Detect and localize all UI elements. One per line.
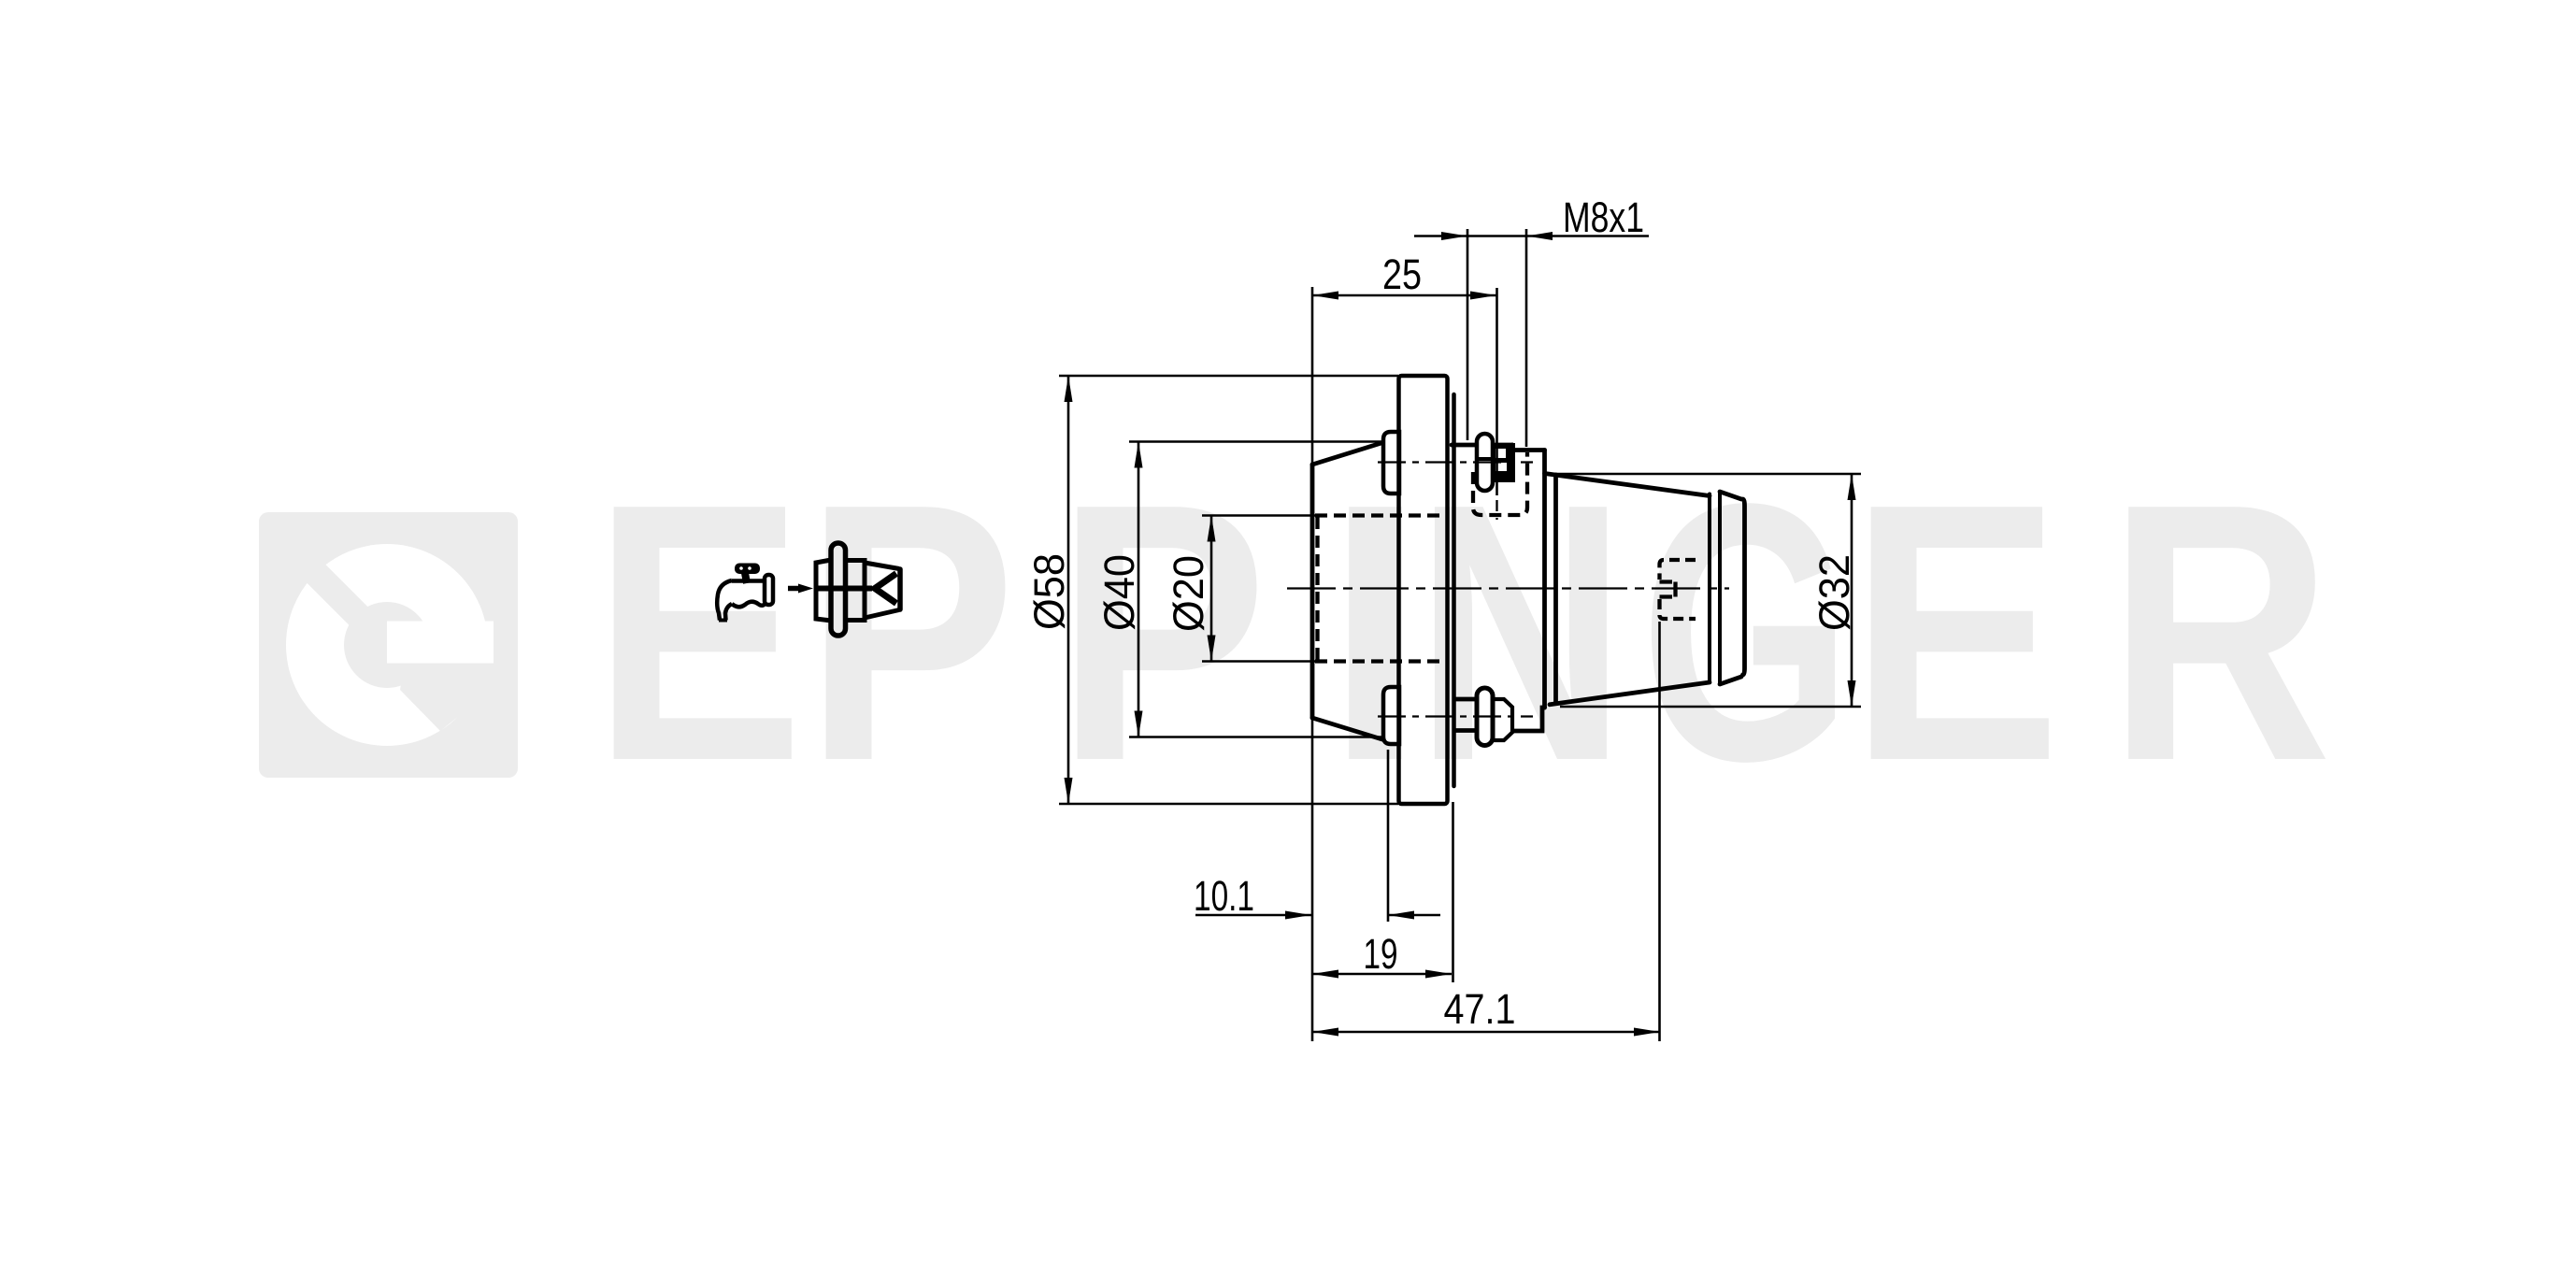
- svg-text:P: P: [1056, 428, 1267, 837]
- svg-text:E: E: [1850, 428, 2061, 837]
- svg-text:I: I: [1324, 428, 1426, 837]
- svg-text:19: 19: [1364, 930, 1398, 978]
- svg-text:10.1: 10.1: [1194, 872, 1254, 920]
- svg-text:R: R: [2108, 428, 2332, 837]
- svg-text:25: 25: [1382, 250, 1422, 298]
- svg-text:Ø20: Ø20: [1165, 555, 1212, 632]
- svg-text:E: E: [593, 428, 804, 837]
- svg-text:M8x1: M8x1: [1563, 193, 1644, 241]
- svg-text:Ø58: Ø58: [1025, 553, 1073, 630]
- svg-text:Ø40: Ø40: [1095, 554, 1143, 631]
- svg-text:47.1: 47.1: [1444, 985, 1516, 1033]
- svg-text:Ø32: Ø32: [1810, 554, 1858, 631]
